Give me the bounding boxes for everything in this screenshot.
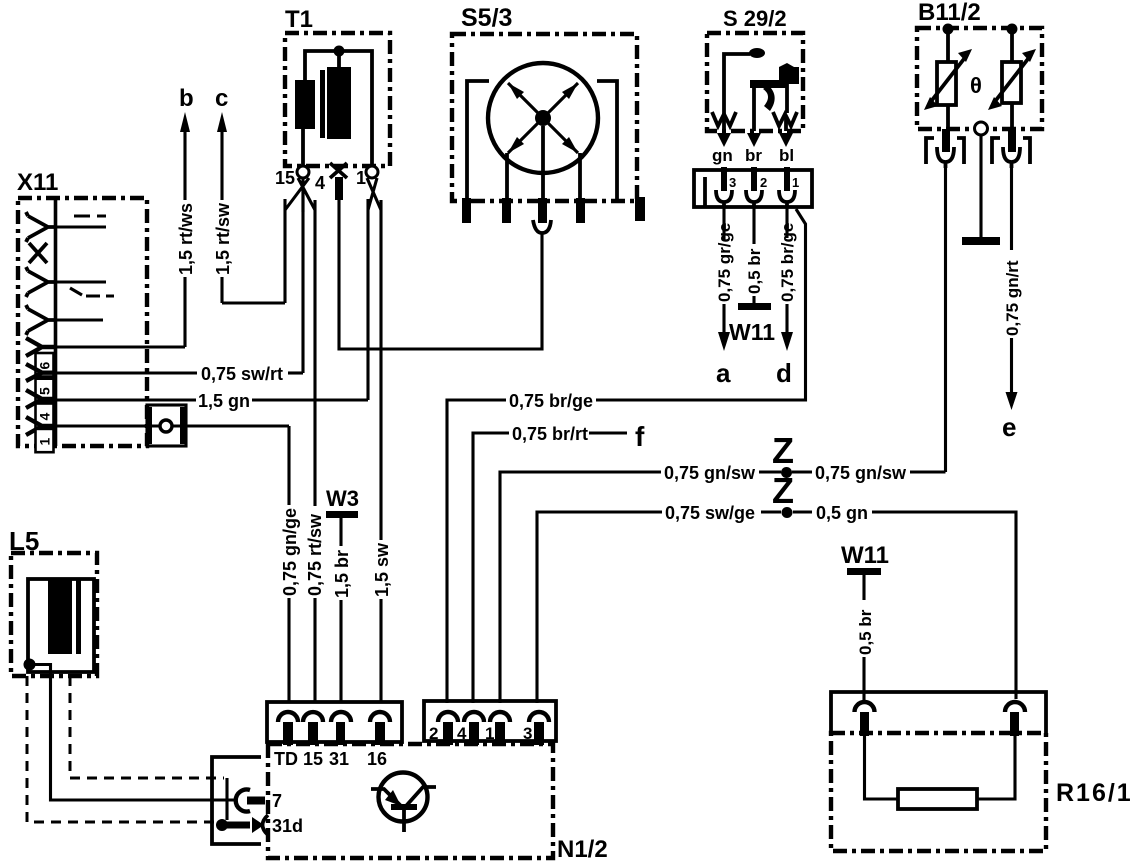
- svg-text:0,75 br/ge: 0,75 br/ge: [778, 223, 797, 302]
- svg-text:4: 4: [457, 724, 467, 743]
- L5 shield (dashed): [27, 676, 224, 822]
- svg-text:bl: bl: [779, 146, 794, 165]
- S29/2 strip pin 3: [716, 167, 736, 207]
- svg-text:S 29/2: S 29/2: [723, 6, 787, 31]
- svg-text:2: 2: [760, 175, 767, 190]
- B11/2 ground wire and earth bar: [962, 135, 1000, 245]
- N1/2 connector strip 2: [424, 701, 556, 741]
- S29/2 plug arrows: [717, 133, 793, 147]
- svg-text:0,75 gn/sw: 0,75 gn/sw: [664, 463, 756, 483]
- X11 terminal 1 (fork): [26, 417, 54, 452]
- svg-text:0,75 sw/rt: 0,75 sw/rt: [201, 364, 283, 384]
- L5 sensor coil: [28, 579, 94, 672]
- wire 0,75 gn/sw (splice to B11/2): [792, 463, 946, 483]
- svg-text:br: br: [745, 146, 762, 165]
- B11/2 left sensor element: [924, 34, 972, 129]
- resistor R16/1: [831, 692, 1133, 851]
- wire T1 pin4 to S5/3 center: [339, 200, 542, 349]
- wire 0,75 gn/rt to node e: [1003, 168, 1022, 410]
- svg-text:7: 7: [272, 791, 282, 811]
- N1/2 pin TD: [278, 712, 298, 745]
- svg-text:3: 3: [523, 724, 532, 743]
- svg-text:3: 3: [729, 175, 736, 190]
- S29/2 pin wires to border: [754, 88, 786, 131]
- svg-text:31d: 31d: [272, 816, 303, 836]
- S5/3 terminals: [462, 197, 645, 223]
- S5/3 center terminal fork: [533, 220, 551, 233]
- svg-text:4: 4: [37, 413, 53, 421]
- shield drain to 31d: [225, 778, 228, 820]
- svg-text:0,75 sw/ge: 0,75 sw/ge: [665, 503, 755, 523]
- T1 pin 4: [315, 163, 347, 200]
- wire 0,75 gn/sw (N1/2 pin1 to splice Z): [500, 463, 781, 703]
- connector block X11: [17, 169, 147, 446]
- S29/2 strip pin 2: [746, 167, 767, 207]
- svg-text:0,75 gn/rt: 0,75 gn/rt: [1003, 260, 1022, 336]
- svg-text:c: c: [215, 85, 228, 112]
- S5/3 rotor blades: [508, 83, 578, 153]
- S29/2 connector strip: [694, 170, 812, 207]
- svg-text:f: f: [635, 421, 645, 452]
- wire color labels gn br bl: [712, 146, 794, 165]
- N1/2 pin 2: [429, 712, 458, 745]
- svg-text:1: 1: [356, 168, 366, 188]
- control unit N1/2: [268, 744, 608, 863]
- wire 1,5 br (W3 to N1/2 31): [332, 518, 352, 703]
- svg-text:2: 2: [429, 724, 438, 743]
- X11 terminal row A (fork): [26, 212, 106, 242]
- svg-text:Z: Z: [772, 470, 794, 511]
- svg-text:0,75 gn/sw: 0,75 gn/sw: [815, 463, 907, 483]
- svg-text:1,5 sw: 1,5 sw: [372, 542, 392, 597]
- svg-text:W11: W11: [841, 542, 889, 569]
- splice Z upper: [772, 430, 794, 478]
- svg-text:e: e: [1002, 412, 1016, 442]
- svg-text:W11: W11: [729, 319, 775, 345]
- S29/2 lower contacts: [712, 112, 797, 126]
- svg-text:T1: T1: [285, 6, 313, 33]
- R16/1 left pin: [855, 702, 875, 736]
- wire 0,75 br/ge branch (S29/2 pin1 to N1/2 pin2): [447, 209, 806, 703]
- svg-text:31: 31: [329, 749, 349, 769]
- wire 1,5 gn (X11 pin4 to T1 pin1): [57, 199, 368, 411]
- N1/2 pin 15: [303, 712, 323, 745]
- svg-text:16: 16: [367, 749, 387, 769]
- svg-text:1: 1: [37, 438, 53, 446]
- N1/2 pin 16: [370, 712, 390, 745]
- X11 terminal 6 (fork): [26, 338, 54, 377]
- svg-text:1: 1: [485, 724, 494, 743]
- svg-text:θ: θ: [970, 73, 982, 98]
- wire 0,5 gn (splice to R16/1): [793, 503, 1016, 699]
- wire 1,5 rt/sw to node c: [213, 112, 285, 303]
- R16/1 right pin: [1005, 702, 1025, 736]
- wire 0,75 gr/ge to node a: [715, 207, 734, 351]
- svg-text:N1/2: N1/2: [557, 836, 608, 863]
- S29/2 fixed contact (pin gn): [724, 48, 765, 131]
- svg-text:15: 15: [303, 749, 323, 769]
- svg-text:0,75 rt/sw: 0,75 rt/sw: [305, 513, 325, 596]
- svg-text:1: 1: [792, 175, 799, 190]
- B11/2 top terminal dots: [943, 24, 1018, 35]
- svg-text:0,75 br/ge: 0,75 br/ge: [509, 391, 593, 411]
- N1/2 pin 31d plug: [252, 815, 303, 836]
- X11 terminal row D (fork): [26, 305, 103, 335]
- svg-text:0,5 gn: 0,5 gn: [816, 503, 868, 523]
- wire 0,75 br/ge to node d: [778, 207, 797, 351]
- svg-text:4: 4: [315, 173, 325, 193]
- svg-text:15: 15: [275, 168, 295, 188]
- svg-text:0,75 gn/ge: 0,75 gn/ge: [280, 508, 300, 596]
- svg-text:6: 6: [37, 362, 53, 370]
- svg-text:Z: Z: [772, 430, 794, 471]
- T1 pin 15: [275, 166, 309, 188]
- B11/2 right pin connector: [992, 129, 1030, 168]
- T1 core: [320, 70, 325, 138]
- T1 pin 1: [356, 166, 378, 188]
- B11/2 ground terminal circle: [975, 122, 988, 135]
- svg-text:b: b: [179, 85, 194, 112]
- svg-text:0,5 br: 0,5 br: [856, 609, 875, 655]
- X11 terminal row C (fork): [26, 267, 114, 297]
- ground W3: [326, 486, 359, 518]
- T1 pin1 fan-out: [367, 178, 381, 210]
- T1 pin15 fan-out: [285, 178, 315, 212]
- wire 0,75 br/rt to node f (N1/2 pin4): [473, 424, 627, 703]
- N1/2 pin 1: [485, 712, 510, 745]
- svg-text:S5/3: S5/3: [461, 4, 512, 32]
- wire B11/2 left pin down: [944, 168, 947, 472]
- T1 secondary winding: [327, 67, 351, 139]
- wire 0,75 rt/sw (T1 pin15 to N1/2 15): [305, 200, 325, 703]
- B11/2 left pin connector: [926, 129, 964, 168]
- B11/2 right sensor element: [988, 34, 1036, 129]
- wire L5 to N1/2 pin 7: [33, 665, 237, 801]
- wire 0,5 br to ground W11: [745, 207, 764, 303]
- svg-text:B11/2: B11/2: [918, 0, 981, 26]
- L5 terminal dot: [24, 659, 36, 671]
- N1/2 pin 3: [523, 712, 549, 745]
- shield bracket at N1/2: [212, 757, 261, 844]
- wire X11 pin6 to node b riser: [57, 345, 185, 348]
- svg-text:1,5 rt/ws: 1,5 rt/ws: [176, 203, 196, 275]
- S29/2 moving contact blade: [763, 84, 787, 113]
- ground W11 (lower): [841, 542, 889, 575]
- N1/2 pin 31: [331, 712, 351, 745]
- speed sensor L5: [9, 526, 97, 676]
- svg-text:gn: gn: [712, 146, 733, 165]
- N1/2 transistor: [371, 773, 436, 833]
- R16/1 resistor element: [865, 736, 1016, 809]
- N1/2 pin 4: [457, 712, 484, 745]
- distributor S5/3: [452, 4, 637, 201]
- svg-text:R16/1: R16/1: [1056, 779, 1133, 807]
- ignition coil T1: [285, 6, 390, 166]
- X11 terminal 5 (fork): [26, 364, 54, 402]
- svg-text:TD: TD: [274, 749, 298, 769]
- wire 1,5 rt/ws to node b: [176, 112, 196, 347]
- T1 junction dot: [334, 46, 345, 57]
- svg-text:1,5 br: 1,5 br: [332, 550, 352, 598]
- svg-text:W3: W3: [326, 486, 359, 511]
- X11 pin1 junction connector box: [57, 405, 289, 446]
- splice Z lower: [772, 470, 794, 518]
- S5/3 internal wires: [467, 81, 617, 199]
- S29/2 switch pivot and bar: [750, 63, 799, 88]
- wire 0,75 gn/ge (junction to N1/2 TD): [280, 426, 300, 703]
- svg-text:a: a: [716, 358, 731, 388]
- N1/2 connector strip 1: [267, 702, 402, 742]
- T1 internal wiring: [303, 51, 372, 167]
- wire 0,75 sw/ge (N1/2 pin3 to splice Z): [537, 503, 781, 703]
- X11 terminal row B (crossed out): [29, 243, 47, 263]
- wire 0,75 sw/rt (X11 pin5 to T1 pin15): [57, 188, 303, 384]
- svg-text:5: 5: [37, 387, 53, 395]
- ground W11 (upper): [729, 303, 775, 345]
- wire 1,5 sw (T1 pin1 to N1/2 16): [372, 200, 392, 703]
- svg-text:0,5 br: 0,5 br: [745, 248, 764, 294]
- T1 primary winding: [295, 80, 315, 129]
- svg-text:1,5 rt/sw: 1,5 rt/sw: [213, 202, 233, 275]
- svg-text:0,75 br/rt: 0,75 br/rt: [512, 424, 588, 444]
- svg-text:X11: X11: [17, 169, 58, 196]
- switch S29/2: [707, 6, 803, 131]
- N1/2 pin 7 socket: [236, 789, 282, 811]
- svg-text:0,75 gr/ge: 0,75 gr/ge: [715, 223, 734, 302]
- S29/2 strip pin 1: [779, 167, 799, 207]
- junction dot at 31d: [216, 819, 250, 831]
- svg-text:d: d: [776, 358, 792, 388]
- temperature sensor B11/2: [917, 0, 1042, 129]
- X11 terminal 4 (fork): [26, 390, 54, 428]
- wire 0,5 br (W11 to R16/1): [856, 575, 875, 702]
- svg-text:1,5 gn: 1,5 gn: [198, 391, 250, 411]
